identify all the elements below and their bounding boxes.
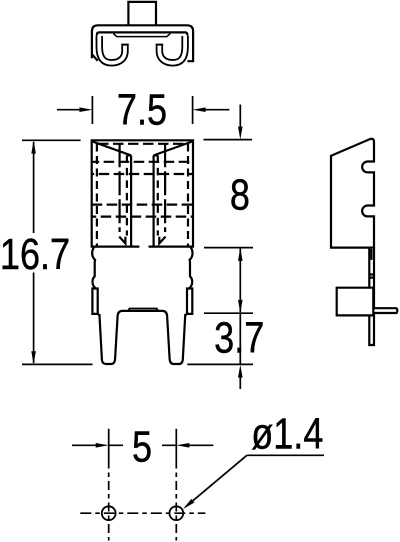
svg-text:ø1.4: ø1.4 — [251, 409, 323, 458]
svg-text:5: 5 — [132, 422, 152, 471]
svg-text:3.7: 3.7 — [214, 313, 264, 362]
svg-text:16.7: 16.7 — [0, 229, 70, 278]
svg-text:7.5: 7.5 — [117, 85, 167, 134]
svg-text:8: 8 — [230, 170, 250, 219]
